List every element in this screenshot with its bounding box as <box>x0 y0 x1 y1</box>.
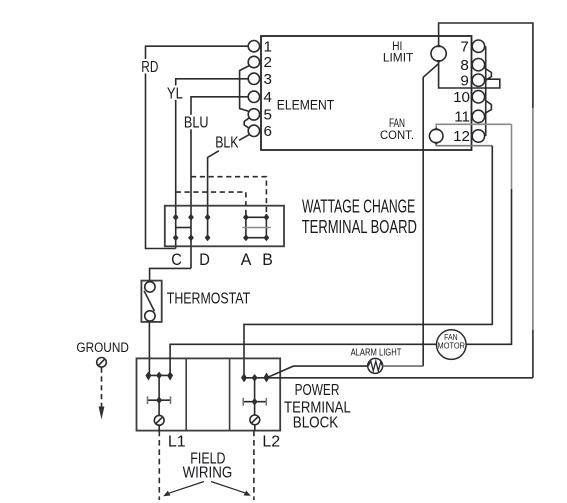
link A-B top <box>246 216 267 218</box>
svg-text:POWER: POWER <box>295 382 340 399</box>
wire terminal 9 to hi-limit bottom <box>439 63 500 88</box>
svg-text:L1: L1 <box>168 434 186 451</box>
L2 dot right <box>264 372 270 382</box>
label BLU <box>182 115 210 132</box>
wire L2 to alarm light diagonal <box>267 366 368 378</box>
L1 crossbar right tick <box>170 396 172 404</box>
svg-text:A: A <box>241 250 252 269</box>
wire terminal 4 BLU <box>191 97 248 269</box>
board middle column wire to thermostat <box>150 268 191 282</box>
terminal 1 <box>248 41 259 52</box>
svg-text:RD: RD <box>141 59 158 76</box>
jumper terminals 2 to 5 <box>240 66 250 112</box>
L2 crossbar dot <box>252 398 258 406</box>
wattage change terminal board box <box>165 206 284 247</box>
terminal 4 <box>248 91 259 102</box>
alarm light bulb <box>368 358 383 373</box>
svg-text:1: 1 <box>264 38 272 55</box>
terminal 2 <box>248 56 259 67</box>
L2 field wiring dashed lead <box>253 431 255 500</box>
wire terminal 1 RD <box>146 46 249 248</box>
L2 crossbar right tick <box>265 398 267 406</box>
label FAN CONT. <box>380 116 414 142</box>
svg-text:12: 12 <box>453 128 470 145</box>
L2 crossbar left tick <box>242 398 244 406</box>
field wiring right arrow <box>211 482 247 494</box>
wire down right side to fan motor <box>511 124 513 189</box>
svg-text:THERMOSTAT: THERMOSTAT <box>167 290 250 307</box>
L2 screw terminal <box>250 415 260 425</box>
terminal 8 <box>472 58 484 70</box>
svg-text:D: D <box>199 250 210 269</box>
alarm light filament <box>368 361 382 371</box>
hi-limit top contact nub <box>436 43 441 47</box>
hi-limit switch body <box>431 46 446 61</box>
svg-text:YL: YL <box>167 85 183 102</box>
L1 dot right <box>167 372 173 381</box>
label FAN MOTOR <box>438 333 466 350</box>
fan control switch body <box>429 129 443 143</box>
L2 dot middle <box>252 374 258 382</box>
svg-text:BLOCK: BLOCK <box>293 415 339 432</box>
svg-text:11: 11 <box>454 109 470 126</box>
svg-text:B: B <box>262 250 273 269</box>
jumper terminals 10 to 11 <box>485 100 491 113</box>
thermostat box <box>141 281 161 322</box>
svg-text:C: C <box>171 250 182 269</box>
terminal 10 <box>472 91 484 103</box>
fan motor <box>437 330 467 360</box>
svg-text:L2: L2 <box>262 434 280 451</box>
L1 dot left <box>145 372 151 381</box>
board column C top dot <box>173 214 179 221</box>
ground arrowhead <box>99 407 105 420</box>
svg-text:6: 6 <box>264 123 272 140</box>
L2 screw to block edge <box>254 425 256 431</box>
terminal 11 <box>472 110 484 122</box>
board column A top dot <box>243 214 249 221</box>
L2 dot left <box>241 373 247 382</box>
dashed wire BLU line to column B <box>191 177 266 214</box>
svg-text:BLK: BLK <box>215 134 239 151</box>
thermostat top contact <box>145 282 155 292</box>
wire hi-limit top up and over to right side <box>439 23 533 108</box>
link A-B bottom <box>246 237 267 239</box>
L2 crossbar <box>243 401 266 403</box>
L1 screw slash <box>156 417 163 424</box>
hi-limit lever arm wire <box>423 64 438 367</box>
ground dashed lead <box>101 368 103 408</box>
svg-text:GROUND: GROUND <box>76 340 128 356</box>
thermostat bottom contact <box>145 311 155 321</box>
label RD <box>140 59 160 76</box>
label FIELD WIRING <box>183 450 233 481</box>
board column B top dot <box>264 214 270 221</box>
board column D bottom dot <box>205 234 211 241</box>
svg-text:BLU: BLU <box>184 115 209 132</box>
L2 node bus to right riser <box>244 377 533 379</box>
jumper C to middle column <box>176 227 191 229</box>
element board box <box>261 36 472 150</box>
svg-text:WATTAGE CHANGE: WATTAGE CHANGE <box>302 196 415 217</box>
L2 fuse drop wire <box>254 378 256 415</box>
L1 fuse drop wire <box>158 375 160 415</box>
board middle column bottom dot <box>188 234 194 241</box>
terminal 9 <box>472 74 484 86</box>
board column B <box>265 214 267 238</box>
svg-text:ALARM LIGHT: ALARM LIGHT <box>351 347 402 358</box>
board column D top dot <box>205 214 211 221</box>
svg-text:ELEMENT: ELEMENT <box>277 98 335 114</box>
fan control top contact nub <box>434 127 439 131</box>
terminal 12 <box>472 130 484 142</box>
power block divider left <box>185 358 187 430</box>
wire thermostat to power block L1 <box>148 321 150 375</box>
L1 field wiring dashed lead <box>158 431 160 500</box>
wire fan control bottom right jog <box>436 145 492 146</box>
wire terminal 6 BLK upper diagonal <box>239 135 249 141</box>
board column C bottom dot <box>173 234 179 241</box>
dashed wire YL line to column A <box>176 192 246 214</box>
label POWER TERMINAL BLOCK <box>284 382 351 432</box>
terminal 6 <box>248 125 259 136</box>
svg-text:WIRING: WIRING <box>183 465 233 482</box>
wire terminal 3 YL <box>176 79 249 249</box>
jumper terminals 8 to 9 <box>485 68 492 81</box>
ground screw slash <box>98 359 105 366</box>
label HI LIMIT <box>383 39 414 65</box>
bus wire joining terminals 7-12 right side <box>485 46 487 136</box>
field wiring left arrow <box>167 482 204 494</box>
power terminal block box <box>137 358 281 430</box>
svg-text:3: 3 <box>264 71 272 88</box>
power block divider right <box>229 358 231 430</box>
board middle column top dot <box>188 214 194 221</box>
board column A bottom dot <box>243 234 249 241</box>
svg-text:7: 7 <box>460 38 468 55</box>
fan control bottom contact nub <box>434 142 439 146</box>
wire fan control top to fan motor right <box>436 124 511 127</box>
svg-text:9: 9 <box>460 72 468 89</box>
thermostat lever <box>144 291 154 311</box>
terminal 5 <box>248 109 259 120</box>
L1 crossbar left tick <box>147 396 149 404</box>
L1 dot middle <box>156 372 162 380</box>
L1 screw to block edge <box>158 425 160 430</box>
field wiring right arrowhead <box>244 491 251 496</box>
field wiring left arrowhead <box>163 491 170 496</box>
board column A <box>245 214 247 238</box>
svg-text:MOTOR: MOTOR <box>438 341 466 350</box>
wire L1 to fan motor left <box>170 344 436 375</box>
svg-text:CONT.: CONT. <box>380 128 414 142</box>
label YL <box>165 85 184 102</box>
wire BLK to board column D <box>208 151 219 238</box>
svg-text:2: 2 <box>264 54 272 71</box>
svg-text:5: 5 <box>264 107 272 124</box>
board column B bottom dot <box>264 234 270 241</box>
svg-text:LIMIT: LIMIT <box>383 51 414 65</box>
wire down to power block L2 <box>244 146 492 376</box>
hi-limit bottom contact nub <box>436 60 441 64</box>
svg-text:8: 8 <box>460 57 468 74</box>
svg-text:TERMINAL BOARD: TERMINAL BOARD <box>302 216 417 237</box>
L1 screw terminal <box>154 415 164 425</box>
wire alarm light to hi-limit lever riser <box>383 365 424 367</box>
L1 crossbar dot <box>156 396 162 404</box>
L2 screw slash <box>251 416 258 423</box>
terminal 7 <box>472 40 484 52</box>
svg-text:4: 4 <box>264 89 272 106</box>
terminal 3 <box>248 73 259 84</box>
svg-text:10: 10 <box>453 89 470 106</box>
link A-B middle gray bar <box>242 227 271 229</box>
L1 node bus <box>148 374 170 376</box>
jumper terminals 5 to 6 <box>244 118 249 129</box>
L1 crossbar <box>148 399 171 401</box>
ground screw terminal <box>97 358 107 368</box>
